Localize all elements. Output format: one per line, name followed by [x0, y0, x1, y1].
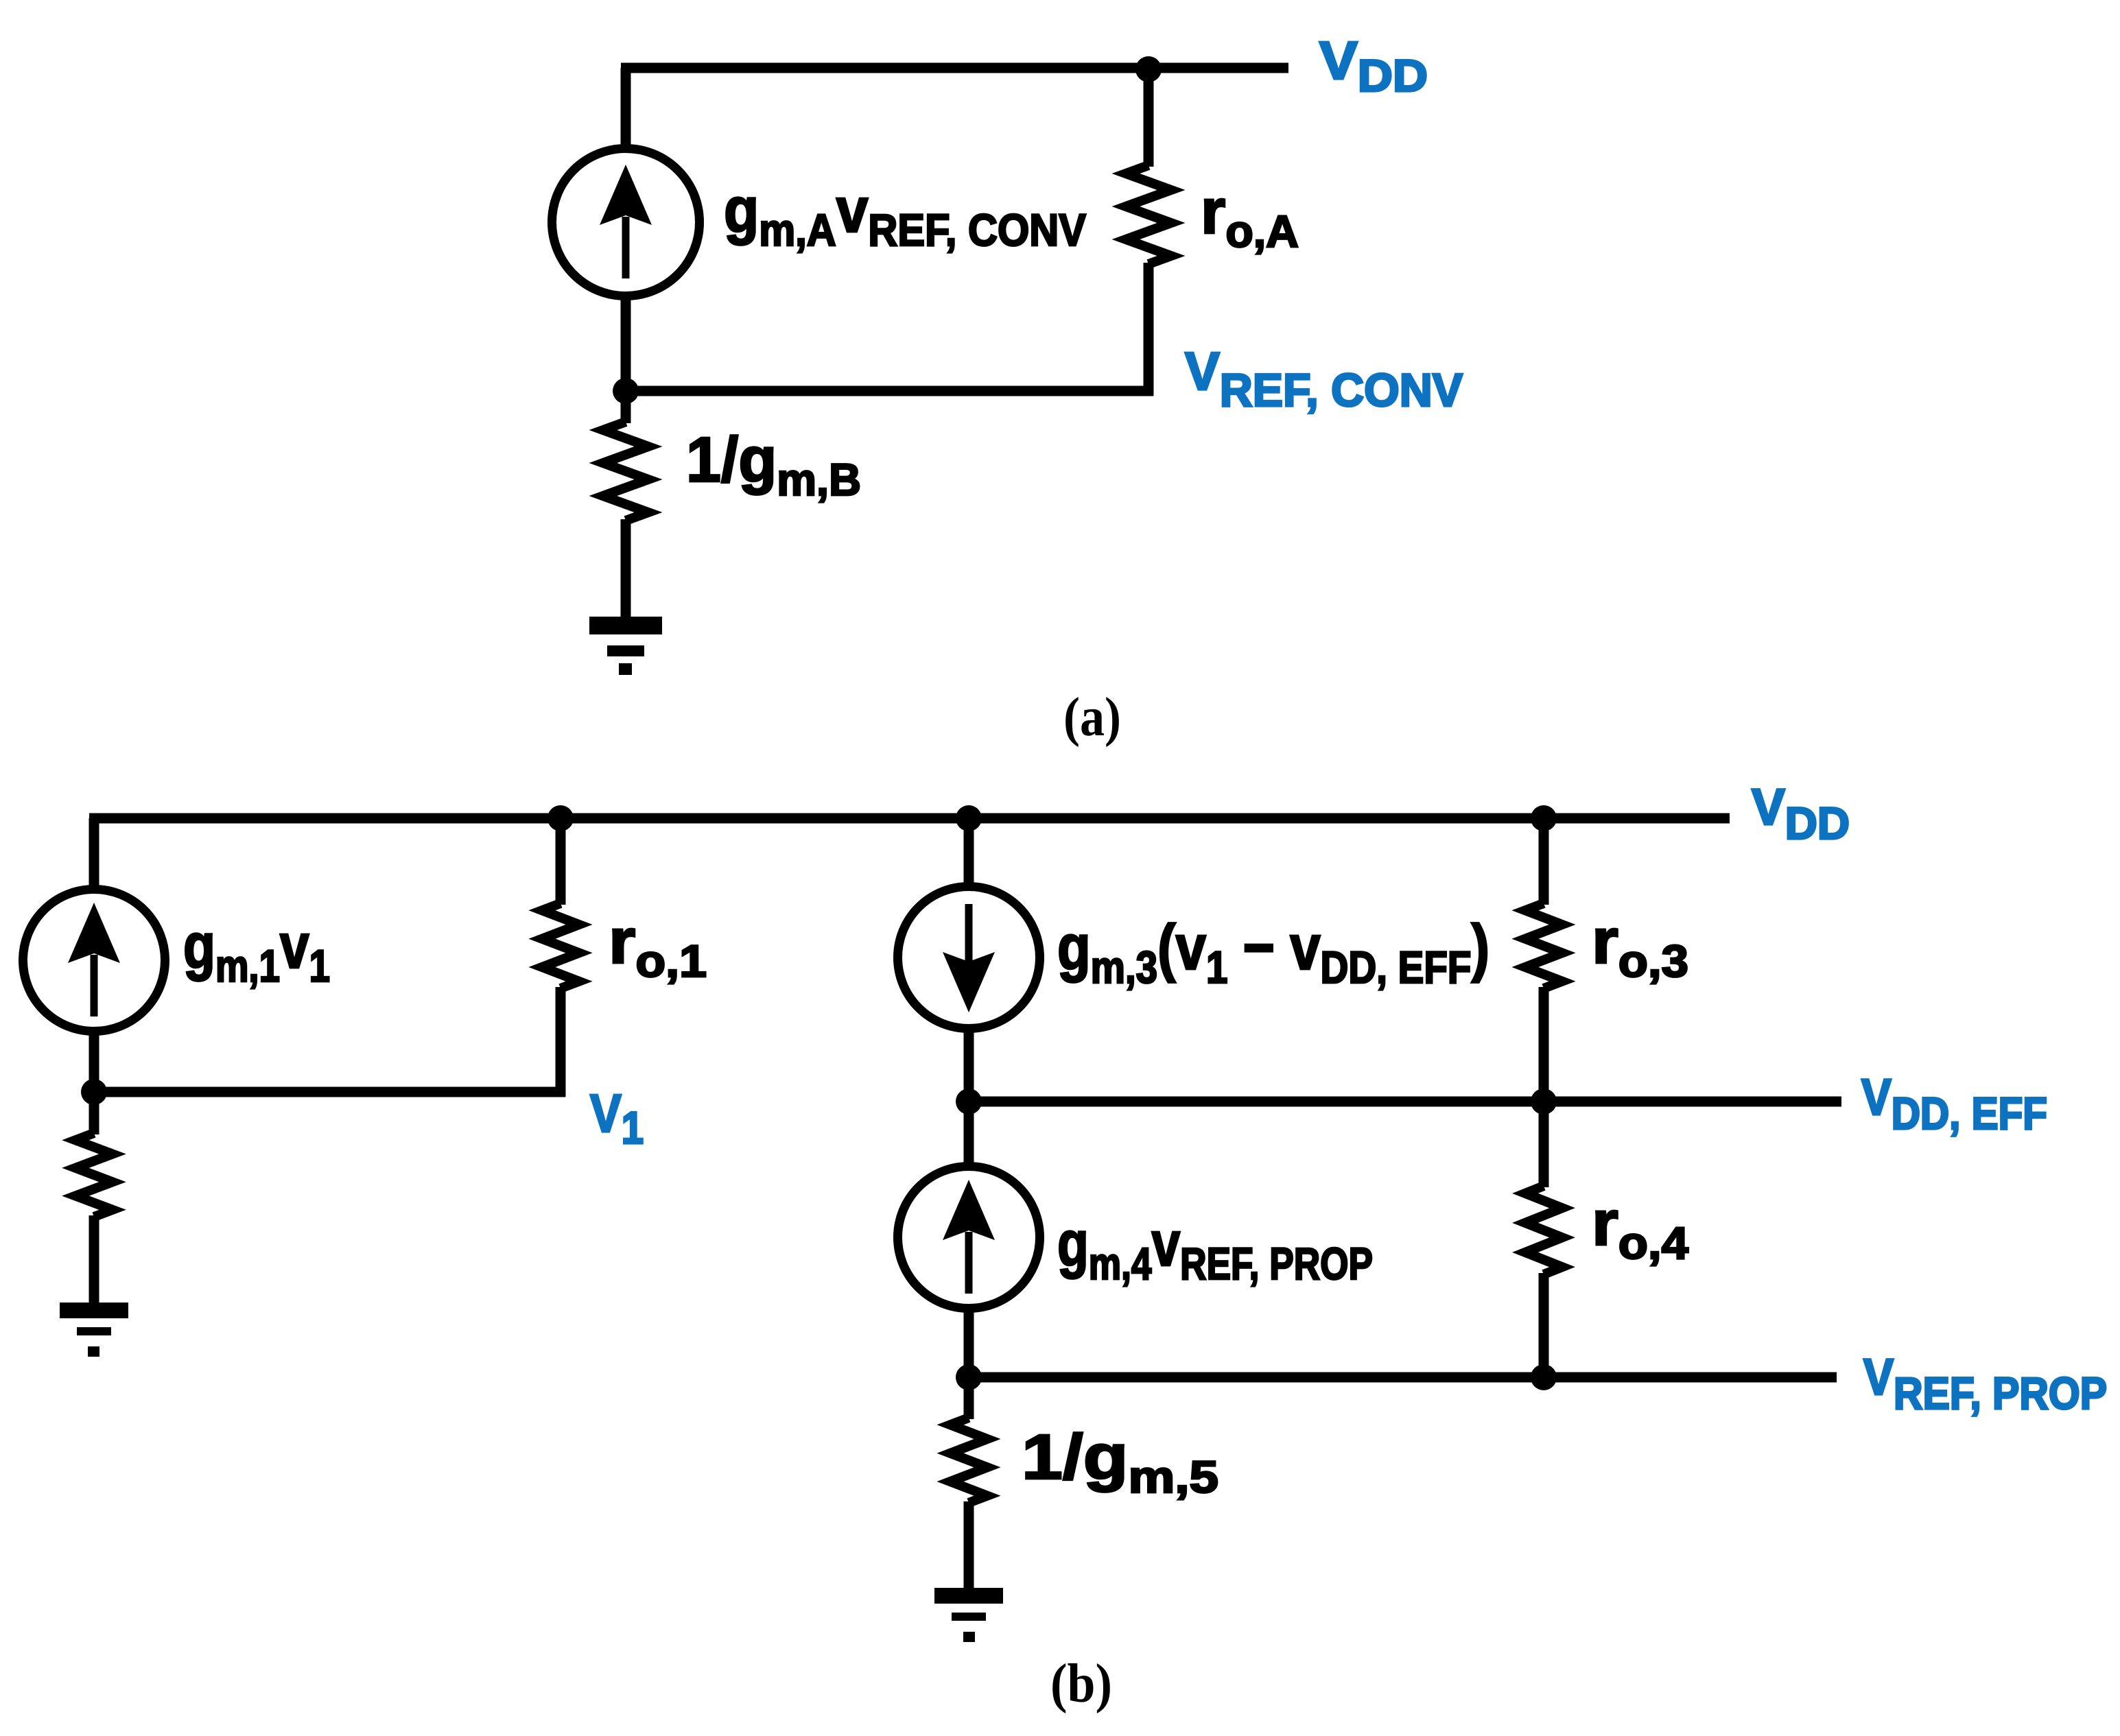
wire: VDD rail top (fig b): [89, 813, 1730, 824]
wire: resistor ro,1 down to v1 rail (fig b): [556, 987, 566, 1097]
wire: current source to vREF,CONV node (fig a): [621, 298, 631, 391]
svg-text:V1: V1: [590, 1083, 644, 1153]
ground symbol (fig a): [589, 617, 662, 634]
node junction dot ro,4 bottom at vREF,PROP (fig b): [1531, 1364, 1557, 1390]
current source gm,1*v1 (fig b): [23, 890, 165, 1032]
svg-text:ro,1: ro,1: [609, 905, 707, 986]
svg-text:gm,4vREF, PROP: gm,4vREF, PROP: [1057, 1208, 1373, 1289]
svg-text:VDD: VDD: [1752, 778, 1850, 848]
node vREF,CONV junction dot (fig a): [613, 378, 639, 404]
node junction dot VDD at gm,3 branch (fig b): [956, 805, 982, 831]
wire: vREF,PROP node rail (fig b): [969, 1372, 1837, 1383]
wire: current source gm,1 down to node v1 (fig b): [89, 1033, 99, 1092]
current source gm,A*vREF,CONV (fig a): [552, 149, 700, 296]
wire: left branch from VDD rail down to current source (fig a): [621, 68, 631, 147]
svg-text:VREF, CONV: VREF, CONV: [1185, 341, 1463, 416]
wire: vDD,EFF node down to current source gm,4 (fig b): [964, 1102, 974, 1166]
wire: v1 node rail (fig b): [89, 1087, 565, 1097]
svg-text:(a): (a): [1063, 687, 1121, 748]
node junction dot ro,3 bottom at vDD,EFF (fig b): [1531, 1089, 1557, 1115]
wire: VDD rail down to resistor ro,1 (fig b): [556, 818, 566, 905]
resistor 1/gm,2 zigzag (fig b): [75, 1133, 113, 1217]
svg-text:ro,A: ro,A: [1201, 176, 1299, 257]
wire: VDD rail top (fig a): [621, 63, 1288, 73]
resistor ro,1 zigzag (fig b): [542, 903, 579, 988]
svg-text:VREF, PROP: VREF, PROP: [1863, 1348, 2107, 1418]
wire: resistor 1/gm,B down to ground (fig a): [621, 519, 631, 619]
svg-text:gm,AvREF, CONV: gm,AvREF, CONV: [724, 174, 1086, 255]
node junction dot VDD at ro,1 (fig b): [547, 805, 574, 831]
node vREF,PROP junction dot (fig b): [956, 1364, 982, 1390]
wire: current source gm,4 down to vREF,PROP node (fig b): [964, 1310, 974, 1377]
current source gm,4*vREF,PROP (fig b): [898, 1167, 1040, 1309]
wire: VDD rail down to resistor ro,3 (fig b): [1539, 818, 1549, 905]
node junction dot VDD at ro,3 (fig b): [1531, 805, 1557, 831]
wire: resistor ro,4 down to vREF,PROP rail (fig b): [1539, 1273, 1549, 1377]
resistor 1/gm,5 zigzag (fig b): [950, 1418, 987, 1503]
wire: vREF,PROP node down to resistor 1/gm,5 (fig b): [964, 1377, 974, 1419]
wire: VDD rail down to current source gm,1 (fig b): [89, 818, 99, 889]
wire: v1 node down to resistor 1/gm,2 (fig b): [89, 1092, 99, 1134]
current source gm,3*(v1-vDD,EFF) arrow down (fig b): [898, 887, 1040, 1029]
resistor ro,3 zigzag (fig b): [1525, 903, 1562, 988]
node VDD junction dot (fig a): [1135, 56, 1162, 82]
ground symbol left (fig b): [60, 1303, 128, 1318]
wire: vDD,EFF node rail (fig b): [969, 1097, 1841, 1107]
node vDD,EFF junction dot (fig b): [956, 1089, 982, 1115]
resistor ro,A zigzag (fig a): [1126, 165, 1171, 264]
svg-text:(b): (b): [1050, 1654, 1112, 1714]
resistor 1/gm,B zigzag (fig a): [603, 422, 648, 521]
wire: VDD dot down to resistor ro,A (fig a): [1144, 69, 1154, 167]
svg-text:ro,3: ro,3: [1592, 905, 1688, 986]
svg-text:1/gm,B: 1/gm,B: [686, 424, 861, 505]
wire: resistor 1/gm,2 down to ground (fig b): [89, 1215, 99, 1305]
ground symbol middle (fig b): [934, 1588, 1003, 1604]
wire: vREF,CONV node rail (fig a): [621, 386, 1153, 396]
wire: vREF,CONV node down to resistor 1/gm,B (fig a): [621, 391, 631, 423]
svg-text:1/gm,5: 1/gm,5: [1022, 1421, 1218, 1502]
svg-text:ro,4: ro,4: [1592, 1187, 1688, 1268]
wire: resistor 1/gm,5 down to ground (fig b): [964, 1501, 974, 1590]
node v1 junction dot (fig b): [81, 1079, 107, 1105]
svg-text:VDD: VDD: [1319, 30, 1428, 101]
wire: current source gm,3 down to vDD,EFF node (fig b): [964, 1030, 974, 1102]
svg-text:VDD, EFF: VDD, EFF: [1861, 1069, 2047, 1139]
wire: VDD rail down to current source gm,3 (fig b): [964, 818, 974, 886]
wire: resistor ro,3 down to vDD,EFF rail (fig b): [1539, 987, 1549, 1102]
resistor ro,4 zigzag (fig b): [1525, 1186, 1562, 1274]
svg-text:gm,1v1: gm,1v1: [183, 910, 330, 991]
wire: vDD,EFF dot down to resistor ro,4 (fig b): [1539, 1102, 1549, 1187]
svg-text:gm,3(v1 − vDD, EFF): gm,3(v1 − vDD, EFF): [1057, 912, 1489, 992]
wire: resistor ro,A to vREF,CONV rail (fig a): [1144, 263, 1154, 396]
